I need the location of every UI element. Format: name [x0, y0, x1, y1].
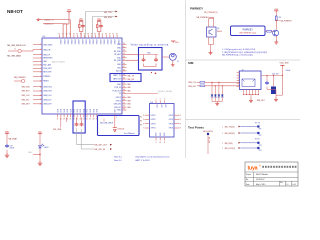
svg-text:USB_DM: USB_DM — [43, 49, 51, 51]
power flag VBAT (Q3) — [274, 11, 278, 12]
svg-text:TP3: TP3 — [259, 145, 262, 147]
svg-text:R25: R25 — [147, 52, 150, 54]
wire below pin B2 — [60, 117, 62, 127]
svg-text:17: 17 — [57, 118, 59, 120]
svg-text:6: 6 — [143, 123, 144, 125]
ferrite bead FB1 — [18, 49, 21, 52]
svg-text:RESET: RESET — [43, 81, 49, 83]
svg-text:P5: P5 — [140, 125, 142, 127]
ground (J2) — [250, 95, 252, 99]
svg-text:(USB_B): (USB_B) — [118, 129, 125, 131]
capacitor C11 — [99, 24, 103, 28]
title block frame — [245, 162, 298, 186]
wire cap rail gnd — [276, 94, 282, 96]
svg-text:TP1: TP1 — [259, 129, 262, 131]
svg-text:VDDIO: VDDIO — [99, 39, 101, 45]
svg-text:5: 5 — [40, 61, 41, 63]
svg-text:J3: J3 — [177, 61, 179, 63]
wire xtal out B — [81, 129, 94, 149]
RF matching box — [139, 48, 163, 71]
svg-text:SIM_RST: SIM_RST — [22, 91, 31, 93]
svg-text:5: 5 — [143, 119, 144, 121]
wire xtal out A — [77, 128, 94, 145]
ferrite bead FB2 — [22, 79, 25, 82]
svg-text:58: 58 — [123, 106, 125, 108]
U3 left pins — [143, 115, 156, 130]
svg-text:SIM_DIO: SIM_DIO — [188, 86, 196, 88]
svg-text:NB_PWRKEY(1)(L) / 1100ms(1)(1): NB_PWRKEY(1)(L) / 1100ms(1)(1) — [222, 54, 253, 56]
wire VDD_SIM rail — [261, 75, 282, 77]
svg-text:(NB-IOT_Mode): (NB-IOT_Mode) — [52, 62, 65, 64]
resistor R10 — [79, 25, 80, 28]
wire ferrite to pin2 — [32, 50, 34, 51]
wire USB vbus — [104, 116, 115, 128]
svg-text:48: 48 — [123, 69, 125, 71]
svg-text:GPO1: GPO1 — [169, 115, 174, 117]
svg-text:(RI_ACT_MODE): (RI_ACT_MODE) — [158, 90, 172, 93]
svg-text:NB_USB_VBUS: NB_USB_VBUS — [100, 123, 114, 125]
svg-text:36: 36 — [80, 34, 82, 36]
TVS diode array D2-D5 — [211, 82, 224, 102]
wire VBAT to R4 — [275, 12, 277, 16]
svg-text:VDDIO: VDDIO — [59, 39, 61, 45]
svg-text:USIM_DIO: USIM_DIO — [43, 99, 52, 101]
transistor Q2 block — [207, 27, 217, 37]
U2 top pins — [58, 34, 118, 45]
labels right of USB box — [140, 117, 142, 127]
svg-text:31: 31 — [62, 34, 64, 36]
SIM connector inner — [242, 79, 255, 87]
svg-text:VDDIO: VDDIO — [113, 39, 115, 45]
svg-text:USIM_DET: USIM_DET — [43, 104, 52, 106]
svg-text:VDDIO: VDDIO — [88, 39, 90, 45]
net labels SIM group — [22, 86, 31, 105]
svg-text:VBAT: VBAT — [274, 8, 278, 11]
svg-text:59: 59 — [123, 109, 125, 111]
svg-text:J2: J2 — [242, 69, 244, 71]
svg-text:P5: P5 — [140, 117, 142, 119]
power flag VDD_SIM — [280, 65, 284, 66]
svg-text:Test Points: Test Points — [188, 126, 204, 130]
svg-text:41: 41 — [98, 34, 100, 36]
svg-text:56: 56 — [123, 99, 125, 101]
svg-text:51: 51 — [123, 83, 125, 85]
svg-text:13: 13 — [40, 95, 42, 97]
wire NB_TXD — [86, 12, 116, 39]
svg-text:NB-IOT: NB-IOT — [7, 9, 23, 14]
svg-text:TP4: TP4 — [259, 150, 262, 152]
svg-text:15: 15 — [40, 103, 42, 105]
section divider vertical — [185, 0, 187, 158]
wire below pin B3 — [65, 117, 67, 122]
svg-text:PWRKEY: PWRKEY — [243, 28, 254, 31]
test point row NB_DCD(2) — [222, 147, 262, 152]
svg-text:NB_PWRKEY: NB_PWRKEY — [281, 20, 293, 22]
svg-text:UART 1 To MCU: UART 1 To MCU — [135, 159, 150, 162]
svg-text:30: 30 — [58, 34, 60, 36]
svg-text:8: 8 — [40, 71, 41, 73]
svg-text:PWRKEY: PWRKEY — [43, 76, 51, 78]
svg-text:NB_TXD(2): NB_TXD(2) — [225, 127, 235, 129]
svg-text:Note 8-2: Note 8-2 — [114, 159, 123, 162]
svg-text:GPIO4: GPIO4 — [151, 128, 156, 130]
svg-text:NB_RXD: NB_RXD — [104, 17, 113, 19]
svg-text:NB_VBAT: NB_VBAT — [9, 138, 18, 141]
NB-IoT module U2 outline — [42, 38, 122, 114]
right pin stub labels — [127, 84, 131, 109]
test lead TP7 — [207, 133, 209, 135]
svg-text:GPO2: GPO2 — [169, 119, 174, 121]
svg-text:May 5, 2019: May 5, 2019 — [256, 184, 265, 186]
svg-text:UART_RX: UART_RX — [113, 78, 122, 81]
svg-text:PSM_EINT: PSM_EINT — [43, 68, 51, 70]
level shifter U3 outline — [150, 104, 175, 138]
wire RF_ANT to box — [127, 54, 139, 56]
svg-text:32K_XTAL: 32K_XTAL — [53, 128, 62, 131]
svg-text:11: 11 — [40, 86, 42, 88]
U3 right pins — [169, 115, 182, 130]
svg-text:NB_RI(2): NB_RI(2) — [225, 143, 233, 145]
antenna connector gnd — [172, 60, 174, 63]
svg-text:37: 37 — [84, 34, 86, 36]
wire VDD_IO join — [97, 21, 101, 38]
svg-text:9: 9 — [40, 76, 41, 78]
wire VBAT cap — [6, 135, 8, 144]
svg-text:GPO4: GPO4 — [169, 128, 174, 130]
svg-text:GPIO4: GPIO4 — [116, 100, 121, 102]
svg-text:SIM_DIO: SIM_DIO — [22, 99, 30, 101]
svg-text:GPO3: GPO3 — [169, 123, 174, 125]
power flag ANT top — [171, 41, 175, 43]
svg-text:NB_RX: NB_RX — [128, 79, 135, 81]
USB circuit box — [98, 116, 140, 136]
svg-text:NB-IOT Module: NB-IOT Module — [256, 174, 268, 176]
svg-text:10: 10 — [159, 142, 161, 144]
section divider PWRKEY/SIM — [186, 59, 301, 61]
svg-text:TP_RI: TP_RI — [255, 139, 260, 141]
wire USBDP — [42, 20, 71, 38]
svg-text:52: 52 — [123, 86, 125, 88]
wire RI note — [122, 92, 158, 94]
svg-text:14: 14 — [40, 99, 42, 101]
svg-text:44: 44 — [109, 34, 111, 36]
power flag VDD_EXT — [79, 20, 83, 21]
wire base — [265, 30, 267, 32]
ground (Q3) — [274, 40, 278, 44]
svg-text:USIM_CLK: USIM_CLK — [43, 95, 52, 97]
transistor Q3 — [273, 30, 279, 36]
wire VDD_EXT join — [79, 21, 83, 38]
capacitor C21 — [80, 123, 84, 127]
svg-text:L1: L1 — [14, 49, 16, 51]
power flag VDD_IO — [97, 20, 101, 21]
svg-text:PWRKEY: PWRKEY — [190, 7, 203, 11]
svg-text:40: 40 — [123, 43, 125, 45]
svg-text:VBAT: VBAT — [5, 130, 9, 133]
svg-text:57: 57 — [123, 102, 125, 104]
svg-text:10: 10 — [40, 81, 42, 83]
wire xtal down-left — [77, 117, 82, 122]
svg-text:USIM_RST: USIM_RST — [43, 91, 52, 93]
svg-text:Rev: Rev — [280, 182, 283, 184]
U2 bottom pins — [57, 108, 99, 120]
svg-text:42: 42 — [123, 50, 125, 52]
svg-text:46: 46 — [123, 63, 125, 65]
svg-text:GPIO2: GPIO2 — [151, 119, 156, 121]
wire Q3 emitter — [275, 36, 277, 40]
net label NB_PWRKEY (stub) — [276, 20, 280, 22]
svg-text:USB: USB — [115, 109, 117, 112]
svg-text:50: 50 — [123, 78, 125, 80]
svg-text:43: 43 — [105, 34, 107, 36]
svg-text:53: 53 — [123, 89, 125, 91]
capacitor C31 — [266, 76, 268, 82]
svg-text:GPIO3: GPIO3 — [116, 97, 121, 99]
svg-text:SIM: SIM — [188, 61, 194, 65]
svg-text:SIM_CLK: SIM_CLK — [188, 82, 197, 84]
capacitor C20 — [75, 123, 79, 127]
svg-text:VDDIO: VDDIO — [110, 39, 112, 45]
ground (TVS) — [215, 102, 219, 106]
svg-text:NB_PWRKEY(2): NB_PWRKEY(2) — [204, 12, 218, 14]
svg-text:LED1: LED1 — [44, 147, 49, 149]
svg-text:RF_GND: RF_GND — [114, 51, 122, 53]
wire Q2 emitter — [209, 37, 214, 51]
ground (C29) — [5, 153, 9, 158]
resistor R11 — [97, 25, 98, 28]
J2 left pins — [237, 71, 240, 87]
svg-text:R4: R4 — [279, 17, 281, 19]
svg-text:PCM_IN: PCM_IN — [114, 87, 121, 89]
wire USBDM — [43, 24, 67, 38]
U2 left pins — [33, 44, 53, 105]
svg-text:1.0: 1.0 — [286, 184, 288, 186]
svg-text:42: 42 — [102, 34, 104, 36]
svg-text:46: 46 — [116, 34, 118, 36]
resistor R4 — [276, 16, 278, 21]
port P1 USB arrow — [37, 19, 42, 21]
svg-text:NB_32K_OUT: NB_32K_OUT — [95, 145, 109, 147]
svg-text:RF_GND: RF_GND — [114, 60, 122, 62]
company name (CJK) — [262, 166, 296, 168]
svg-text:Q2: Q2 — [217, 28, 219, 30]
svg-text:39: 39 — [91, 34, 93, 36]
svg-text:GPIO3: GPIO3 — [151, 123, 156, 125]
svg-text:TP_TX: TP_TX — [255, 122, 261, 124]
ground (Q2) — [209, 51, 213, 55]
wire SIM_CLK — [205, 81, 240, 83]
PWRKEY callout box — [231, 26, 266, 36]
U2 bottom pin USB — [115, 109, 118, 119]
svg-text:NB_DCD(2): NB_DCD(2) — [225, 148, 235, 150]
svg-text:28: 28 — [93, 118, 95, 120]
svg-text:VDDIO: VDDIO — [81, 39, 83, 45]
svg-text:UART_TX: UART_TX — [113, 74, 122, 77]
svg-text:32: 32 — [66, 34, 68, 36]
svg-text:45: 45 — [123, 59, 125, 61]
svg-text:NB_USB_VBUS-5-5V: NB_USB_VBUS-5-5V — [7, 45, 26, 47]
svg-text:VDDIO: VDDIO — [92, 39, 94, 45]
highlight box XTAL — [73, 101, 85, 133]
test point row NB_RXD(2) — [222, 132, 262, 137]
svg-text:VDDIO: VDDIO — [77, 39, 79, 45]
ground (LED) — [38, 161, 42, 166]
svg-text:VDDIO: VDDIO — [74, 39, 76, 45]
U3 bottom pins — [156, 132, 167, 144]
svg-text:55: 55 — [123, 96, 125, 98]
svg-text:For USB port: For USB port — [124, 132, 135, 135]
svg-text:SIM_DET: SIM_DET — [22, 104, 31, 106]
svg-text:NB_32K_IN: NB_32K_IN — [95, 149, 106, 151]
svg-text:NETLIGHT: NETLIGHT — [43, 72, 51, 74]
svg-text:RF_ANT: RF_ANT — [114, 53, 121, 56]
svg-text:NB_PWRKEY: NB_PWRKEY — [197, 17, 210, 19]
wire NB_RXD — [92, 17, 115, 39]
svg-text:VDDIO: VDDIO — [95, 39, 97, 45]
svg-text:VDDIO: VDDIO — [106, 39, 108, 45]
svg-text:47: 47 — [123, 66, 125, 68]
wire RF inside — [139, 55, 159, 58]
power flag VDD (LED) — [38, 133, 42, 135]
power flag VBUS down — [113, 128, 117, 132]
svg-text:VDDIO: VDDIO — [102, 39, 104, 45]
svg-text:ADC0: ADC0 — [116, 70, 121, 73]
svg-text:VDDIO: VDDIO — [66, 39, 68, 45]
svg-text:NB_TXD: NB_TXD — [104, 12, 112, 14]
svg-text:USB_DM: USB_DM — [114, 104, 122, 106]
svg-text:USIM_VDD: USIM_VDD — [43, 86, 53, 88]
U3 top pins — [156, 99, 167, 109]
svg-text:SIM_DET: SIM_DET — [257, 100, 266, 102]
resistor R5 (base) — [267, 30, 272, 32]
svg-text:1: 1 — [40, 44, 41, 46]
wire LED top — [39, 135, 41, 145]
wire VDD_SIM down — [281, 67, 283, 96]
svg-text:2019.05.07: 2019.05.07 — [256, 179, 265, 181]
svg-text:VDDIO: VDDIO — [70, 39, 72, 45]
wire cap gnd — [6, 150, 8, 153]
svg-text:19: 19 — [63, 118, 65, 120]
power flag VDD (top left) — [67, 12, 71, 14]
power flag VBAT (bottom) — [5, 133, 9, 135]
svg-text:6: 6 — [40, 65, 41, 67]
svg-text:40: 40 — [94, 34, 96, 36]
svg-text:TP2: TP2 — [259, 135, 262, 137]
svg-text:4: 4 — [40, 58, 41, 60]
svg-text:7: 7 — [40, 68, 41, 70]
svg-text:NB_PWRKEY: NB_PWRKEY — [14, 77, 27, 79]
svg-text:S8050: S8050 — [217, 31, 222, 33]
svg-text:35: 35 — [76, 34, 78, 36]
U2 right pins — [113, 43, 127, 112]
svg-text:4: 4 — [143, 115, 144, 117]
svg-text:27: 27 — [89, 118, 91, 120]
svg-text:USB_DP: USB_DP — [114, 107, 122, 109]
svg-text:NB_TX: NB_TX — [128, 76, 135, 78]
svg-text:tuya: tuya — [248, 166, 258, 172]
capacitor C10 — [81, 24, 85, 28]
wire SIM_DIO — [205, 85, 240, 87]
test point row NB_RI(2) — [222, 139, 262, 147]
capacitor C29 — [5, 144, 9, 148]
svg-text:11: 11 — [164, 142, 166, 144]
capacitor C27 — [154, 58, 158, 62]
resistor R6 — [200, 82, 205, 84]
wire VBAT to pin — [63, 12, 69, 39]
svg-text:GPIO1: GPIO1 — [151, 115, 156, 117]
svg-text:P5: P5 — [140, 121, 142, 123]
svg-text:RESERVED: RESERVED — [43, 58, 53, 60]
svg-text:VDDIO: VDDIO — [84, 39, 86, 45]
svg-text:100uF: 100uF — [10, 148, 15, 150]
svg-text:Only UART3 can do download fun: Only UART3 can do download function — [135, 155, 169, 158]
test point row NB_TXD(2) — [222, 122, 262, 130]
antenna connector J3 — [169, 53, 176, 60]
svg-text:SIM_VDD: SIM_VDD — [22, 86, 31, 88]
ground (SIM caps) — [274, 98, 278, 102]
junction below RF box — [155, 73, 157, 75]
SIM connector J2 outline — [240, 71, 262, 90]
svg-text:21: 21 — [70, 118, 72, 120]
svg-text:49: 49 — [123, 74, 125, 76]
J2 bottom pins — [243, 90, 259, 96]
svg-text:34: 34 — [73, 34, 75, 36]
svg-text:44: 44 — [123, 56, 125, 58]
svg-text:1 of 2: 1 of 2 — [292, 184, 296, 186]
svg-text:C30 1uF: C30 1uF — [272, 74, 278, 76]
LED D1 — [39, 144, 44, 148]
svg-text:Note 8-1: Note 8-1 — [114, 155, 123, 158]
svg-text:NB_RXD(2): NB_RXD(2) — [225, 133, 235, 135]
wire LED junction — [33, 148, 40, 161]
svg-text:NB_USB_DATA: NB_USB_DATA — [7, 54, 21, 57]
wire R4 to Q3 — [275, 21, 277, 30]
wire RF_GND to box — [127, 59, 139, 61]
svg-text:VDD_SIM: VDD_SIM — [280, 63, 289, 65]
ESD array D6 — [273, 76, 275, 87]
svg-text:25: 25 — [83, 118, 85, 120]
wire PWRKEY input — [209, 17, 214, 24]
svg-text:100nF: 100nF — [286, 70, 291, 72]
capacitor C26 — [142, 58, 146, 62]
svg-text:26: 26 — [86, 118, 88, 120]
wire RF caps gnd — [144, 64, 157, 67]
section divider SIM/TestPoints — [186, 119, 301, 121]
svg-text:33: 33 — [69, 34, 71, 36]
svg-text:VDDIO: VDDIO — [63, 39, 65, 45]
resistor R7 — [200, 85, 205, 87]
svg-text:RXD_AUX: RXD_AUX — [43, 64, 52, 67]
svg-text:3: 3 — [40, 54, 41, 56]
wire J2 bottom rail — [244, 94, 259, 96]
svg-text:7: 7 — [143, 128, 144, 130]
svg-text:24: 24 — [79, 118, 81, 120]
wire TVS rail — [212, 101, 222, 103]
svg-text:2: 2 — [40, 49, 41, 51]
svg-text:VBAT: VBAT — [67, 9, 71, 12]
svg-text:(NB_PWRKEY input): (NB_PWRKEY input) — [239, 32, 256, 35]
svg-text:45: 45 — [112, 34, 114, 36]
svg-text:USB_DP: USB_DP — [43, 54, 51, 56]
svg-text:38: 38 — [87, 34, 89, 36]
svg-text:43: 43 — [123, 53, 125, 55]
highlight box UART — [110, 74, 141, 82]
svg-text:SIM_CLK: SIM_CLK — [22, 95, 31, 97]
svg-text:Value according to antenna: Value according to antenna — [131, 43, 169, 46]
svg-text:41: 41 — [123, 46, 125, 48]
svg-text:NB_USB: NB_USB — [208, 137, 210, 143]
svg-text:USB_VBUS: USB_VBUS — [43, 44, 53, 46]
